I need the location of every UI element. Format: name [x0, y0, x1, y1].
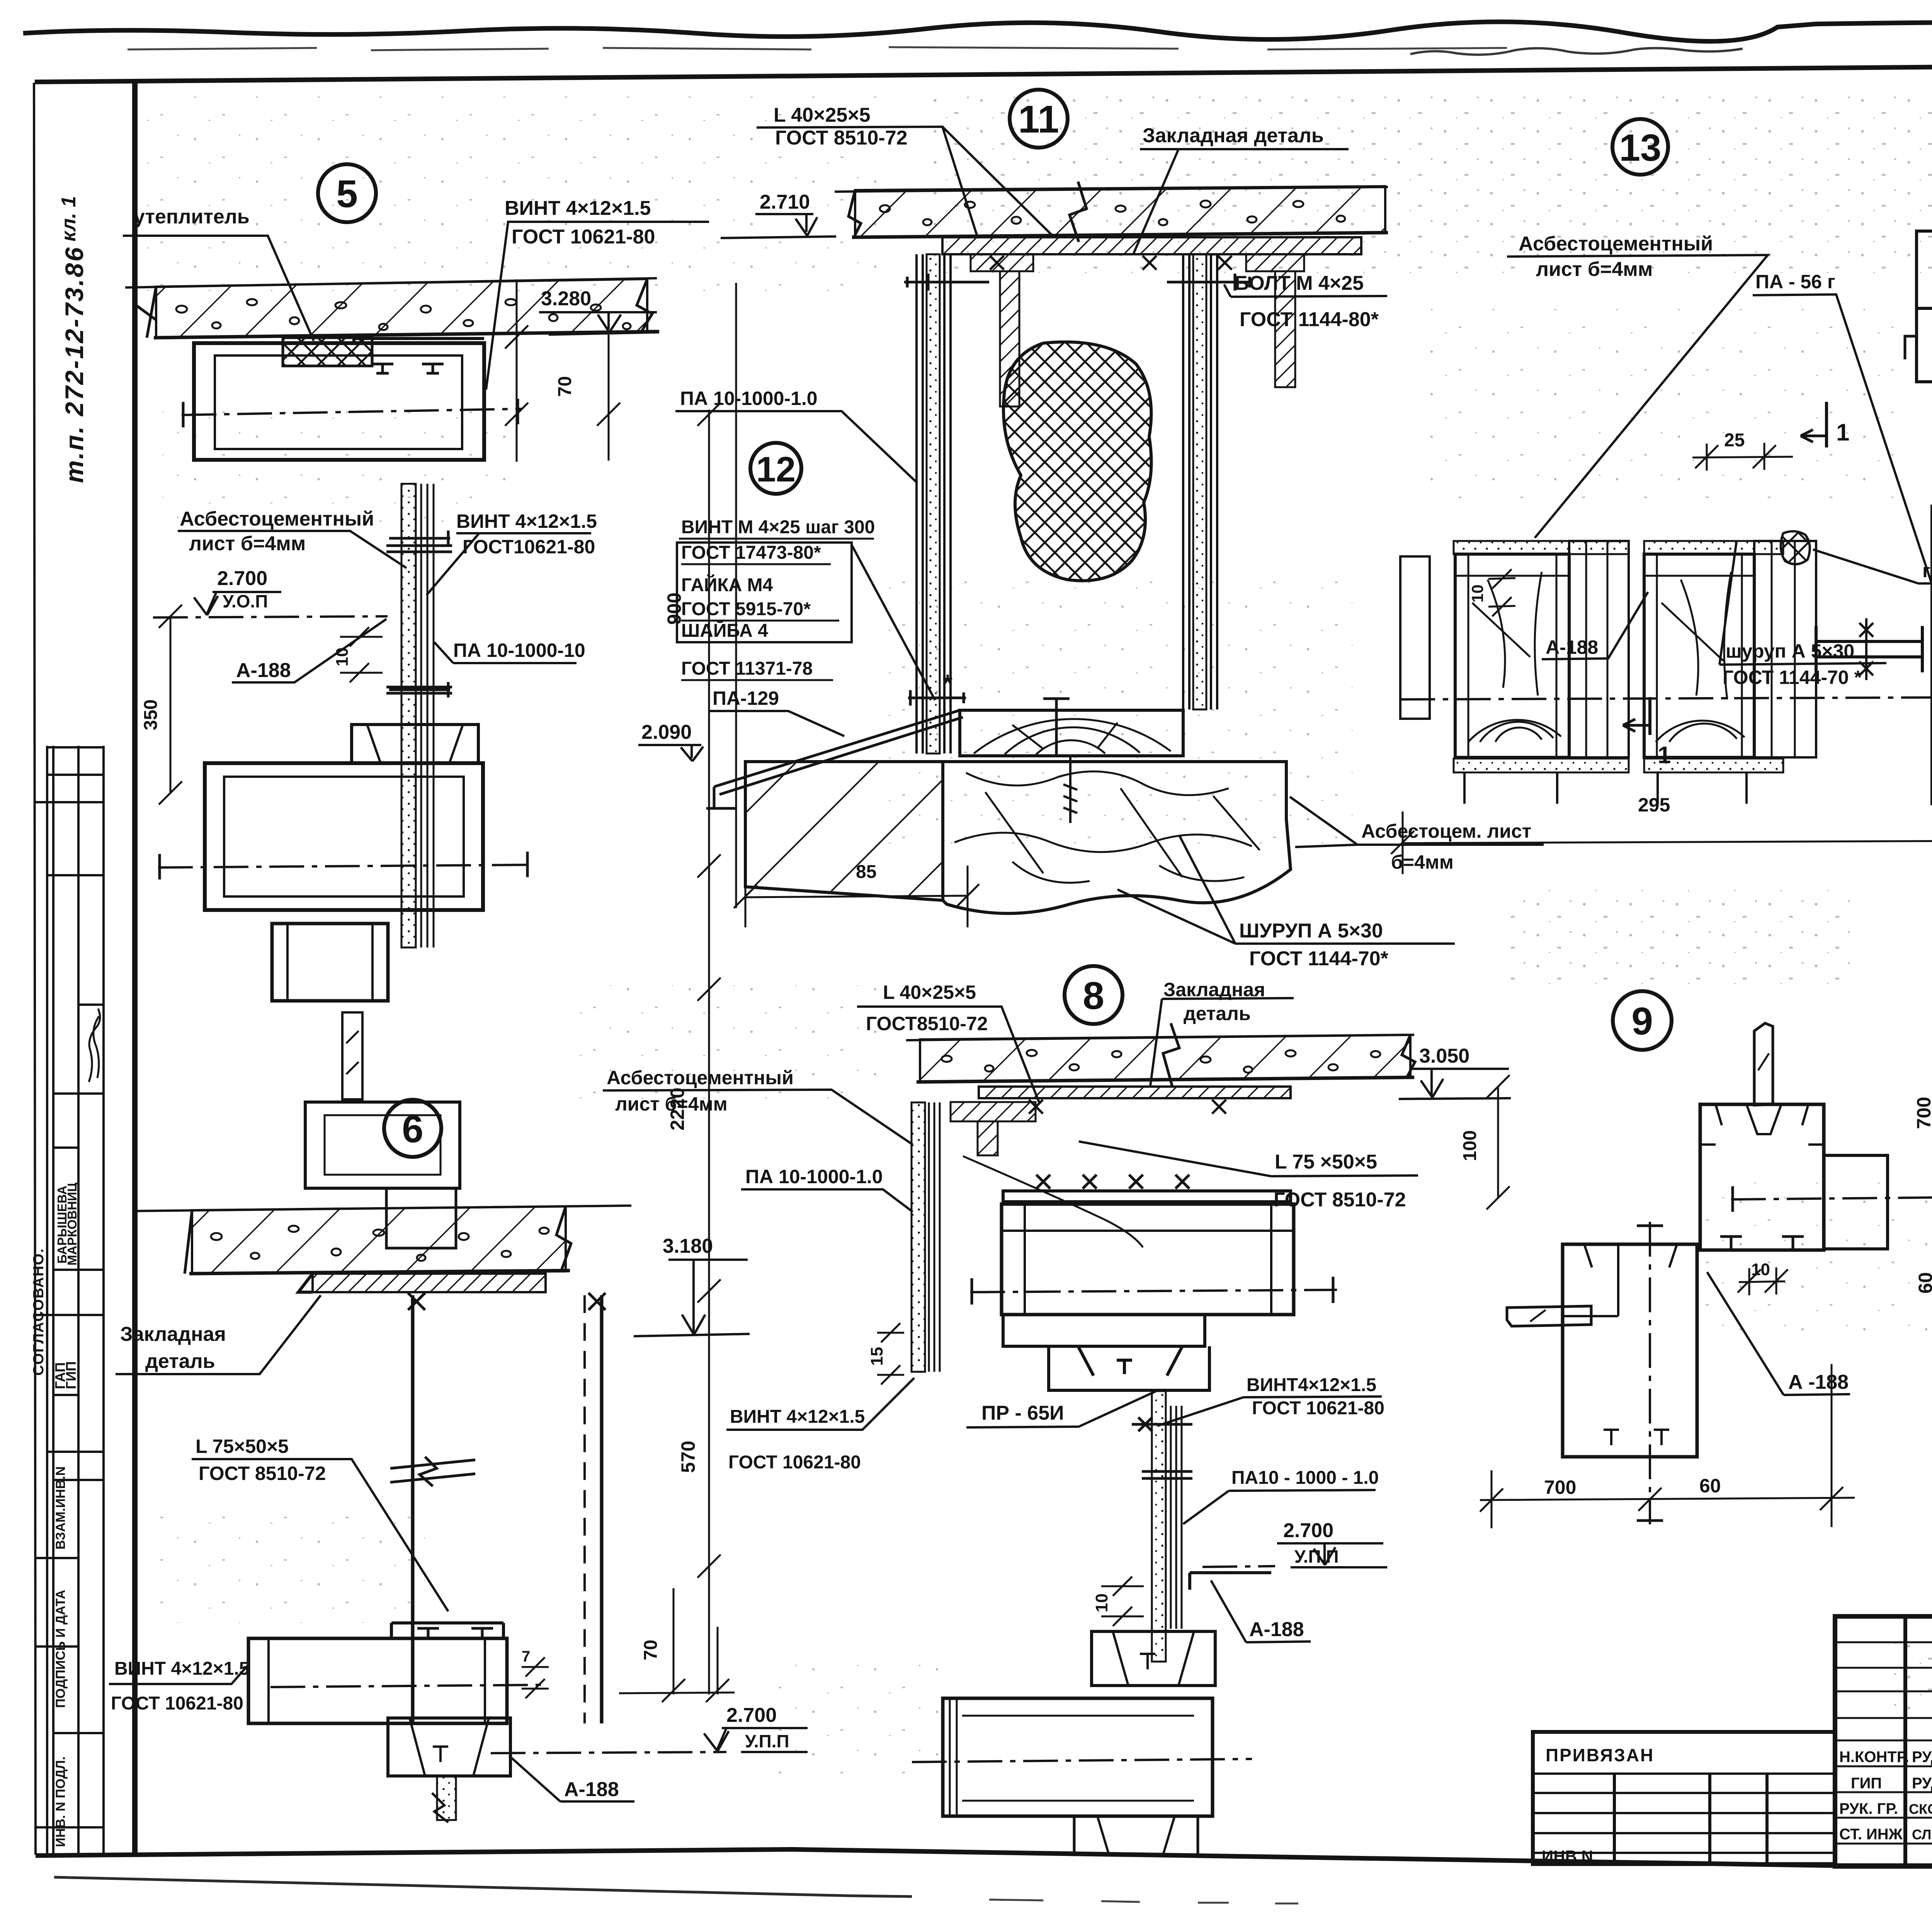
- svg-text:ГОСТ 10621-80: ГОСТ 10621-80: [728, 1452, 861, 1473]
- bottom dims 700 60: [1480, 1364, 1855, 1528]
- dim 70 bottom: [619, 1588, 735, 1702]
- svg-text:85: 85: [856, 862, 876, 882]
- angle L40 left hatched: [971, 254, 1033, 271]
- svg-text:А -188: А -188: [1788, 1371, 1849, 1393]
- bottom small piece: [1074, 1816, 1198, 1855]
- svg-text:ГОСТ 8510-72: ГОСТ 8510-72: [199, 1463, 326, 1484]
- privyazan box rows: [1533, 1774, 1835, 1853]
- svg-text:350: 350: [141, 699, 161, 730]
- asbestos sheet lower detail 8: [1152, 1391, 1166, 1662]
- right extension detail 9: [1824, 1155, 1888, 1249]
- svg-text:ИНВ. N ПОДЛ.: ИНВ. N ПОДЛ.: [53, 1757, 68, 1847]
- svg-text:570: 570: [677, 1441, 699, 1473]
- svg-text:Закладная: Закладная: [120, 1323, 226, 1345]
- dim 70: [505, 279, 528, 462]
- main frame left (sheet edge): [34, 83, 36, 1855]
- scan smudge top center: [1410, 48, 1743, 54]
- svg-text:5: 5: [336, 172, 358, 216]
- svg-text:25: 25: [1724, 430, 1745, 451]
- svg-text:6: 6: [402, 1107, 423, 1151]
- svg-text:3.280: 3.280: [541, 287, 591, 310]
- lower window profile detail 5: [352, 725, 478, 763]
- dim 100: [1486, 1075, 1510, 1209]
- rubble stones: [954, 771, 1260, 883]
- main profile block detail 8: [1002, 1204, 1294, 1315]
- svg-text:8: 8: [1083, 974, 1104, 1017]
- svg-text:т.п. 272-12-73.86: т.п. 272-12-73.86: [60, 246, 88, 483]
- svg-text:СТ. ИНЖ.: СТ. ИНЖ.: [1839, 1826, 1907, 1843]
- svg-text:ВИНТ 4×12×1.5: ВИНТ 4×12×1.5: [505, 197, 651, 219]
- svg-text:L 40×25×5: L 40×25×5: [883, 981, 976, 1003]
- svg-text:У.О.П: У.О.П: [223, 591, 268, 611]
- main frame top: [35, 61, 1932, 82]
- svg-text:Асбестоцементный: Асбестоцементный: [607, 1067, 794, 1089]
- left window side profiles: [1569, 541, 1629, 757]
- svg-text:700: 700: [1544, 1476, 1576, 1498]
- scan bottom streak: [54, 1877, 912, 1897]
- svg-text:ИНВ N: ИНВ N: [1542, 1847, 1593, 1865]
- angle L40 right hatched: [1246, 254, 1304, 271]
- svg-text:утеплитель: утеплитель: [134, 206, 250, 228]
- svg-text:ГОСТ 17473-80*: ГОСТ 17473-80*: [681, 543, 821, 563]
- svg-text:ГОСТ 10621-80: ГОСТ 10621-80: [1252, 1398, 1384, 1419]
- title block outer: [1835, 1616, 1932, 1866]
- dim 10 small detail 13: [1488, 569, 1515, 616]
- detail circle 9: [1613, 991, 1672, 1050]
- concrete slab detail 11: [835, 187, 1388, 192]
- T glyph: [422, 364, 444, 373]
- concrete slab detail 6: [134, 1206, 631, 1211]
- svg-text:У.П.П: У.П.П: [745, 1731, 789, 1751]
- section mark 1 upper: [1825, 402, 1828, 447]
- window profile detail 5: [194, 343, 484, 460]
- svg-text:ГИП: ГИП: [63, 1361, 79, 1389]
- svg-text:L 75×50×5: L 75×50×5: [196, 1436, 289, 1457]
- flashing angle: [1190, 1573, 1271, 1590]
- svg-text:15: 15: [867, 1347, 886, 1366]
- svg-text:9: 9: [1631, 1000, 1653, 1043]
- svg-text:ШУРУП А 5×30: ШУРУП А 5×30: [1239, 920, 1383, 942]
- shelf plate: [1003, 1191, 1291, 1202]
- insulation pad crosshatch: [283, 338, 372, 366]
- svg-text:60: 60: [1915, 1272, 1932, 1294]
- second window frame: [1644, 554, 1754, 757]
- left window strip: [1454, 541, 1629, 554]
- svg-text:11: 11: [1018, 98, 1059, 141]
- window sill with wood grain: [960, 710, 1183, 756]
- embedded plate detail 8: [979, 1087, 1291, 1098]
- sealant blob crosshatch: [1003, 342, 1151, 581]
- svg-text:ПА 10-1000-1.0: ПА 10-1000-1.0: [680, 388, 818, 409]
- svg-text:10: 10: [333, 648, 352, 667]
- svg-text:ПР - 65И: ПР - 65И: [981, 1402, 1064, 1424]
- dim 10 lower: [1101, 1577, 1144, 1626]
- lower trapezoid block: [1092, 1631, 1215, 1686]
- concrete slab detail 8: [906, 1035, 1414, 1040]
- svg-text:60: 60: [1699, 1475, 1721, 1497]
- bolt left: [904, 274, 989, 291]
- stamp signatures: [89, 1009, 100, 1082]
- slab 11 stones: [880, 201, 1345, 225]
- svg-text:ШАЙБА 4: ШАЙБА 4: [681, 620, 768, 641]
- svg-text:А-188: А-188: [564, 1778, 619, 1801]
- privyazan box columns: [1614, 1774, 1767, 1864]
- axis detail 9 vertical: [1649, 1222, 1651, 1524]
- lower left profile block detail 9: [1563, 1244, 1697, 1457]
- lower block detail 6: [388, 1718, 510, 1776]
- left window frame: [1455, 554, 1569, 757]
- svg-text:12: 12: [756, 450, 796, 489]
- axis line detail 5: [182, 409, 522, 415]
- svg-text:2.700: 2.700: [217, 567, 267, 590]
- svg-text:10: 10: [1468, 585, 1486, 603]
- main frame left border: [132, 81, 138, 1855]
- concrete slab detail 5: [125, 278, 657, 287]
- svg-text:ГАЙКА М4: ГАЙКА М4: [681, 574, 773, 595]
- svg-text:3.180: 3.180: [663, 1235, 713, 1257]
- svg-text:Н.КОНТР.: Н.КОНТР.: [1839, 1749, 1909, 1766]
- sheet break marks: [386, 546, 452, 693]
- svg-text:ГОСТ 8510-72: ГОСТ 8510-72: [775, 127, 908, 149]
- bottom profile detail 6: [248, 1638, 507, 1723]
- detail circle 12: [750, 443, 801, 494]
- title block left columns: [1905, 1616, 1932, 1866]
- embedded plate detail 11: [942, 237, 1361, 254]
- svg-text:деталь: деталь: [145, 1350, 215, 1373]
- sloped flashing: [706, 710, 963, 808]
- screws through sheet: [389, 531, 450, 697]
- dim 15: [877, 1323, 904, 1385]
- svg-text:*: *: [943, 669, 952, 697]
- svg-text:295: 295: [1638, 794, 1670, 816]
- svg-text:У.П.П: У.П.П: [1294, 1546, 1339, 1567]
- scan top edge wavy line: [23, 22, 1932, 41]
- svg-text:СКОТНИКОВА: СКОТНИКОВА: [1909, 1801, 1932, 1817]
- svg-text:ПА - 56 г: ПА - 56 г: [1755, 271, 1835, 293]
- long vertical dim line with 900: [697, 403, 721, 1001]
- svg-text:ВИНТ4×12×1.5: ВИНТ4×12×1.5: [1247, 1375, 1376, 1395]
- svg-text:L 40×25×5: L 40×25×5: [774, 104, 871, 126]
- asbestos sheet strips detail 5: [401, 484, 416, 947]
- svg-text:ГОСТ 1144-80*: ГОСТ 1144-80*: [1240, 308, 1379, 331]
- detail circle 6: [384, 1100, 441, 1157]
- stamp column row lines: [35, 747, 104, 1827]
- axis detail 13: [1400, 697, 1932, 699]
- svg-text:13: 13: [1619, 126, 1661, 169]
- svg-text:ГОСТ8510-72: ГОСТ8510-72: [866, 1013, 988, 1034]
- privyazan box: [1533, 1732, 1835, 1864]
- detail circle 11: [1010, 90, 1068, 148]
- leader to column bolt: [852, 545, 935, 700]
- svg-text:700: 700: [1913, 1097, 1932, 1129]
- svg-text:2.700: 2.700: [1283, 1519, 1333, 1542]
- embedded plate detail 6: [313, 1274, 546, 1292]
- bottom window piece detail 5: [305, 1102, 460, 1188]
- svg-text:СЛАВКИНА: СЛАВКИНА: [1912, 1827, 1932, 1842]
- anchor bolt into foundation: [1063, 756, 1077, 823]
- slab stones: [176, 299, 631, 330]
- asbestos sheet strips upper detail 8: [912, 1102, 925, 1372]
- svg-text:70: 70: [555, 376, 575, 396]
- svg-text:деталь: деталь: [1184, 1003, 1251, 1024]
- axis detail 9 horizontal: [1731, 1197, 1932, 1199]
- weld x row: [1036, 1175, 1189, 1189]
- svg-text:3.050: 3.050: [1419, 1045, 1469, 1067]
- svg-text:ПОДПИСЬ И ДАТА: ПОДПИСЬ И ДАТА: [53, 1590, 68, 1708]
- long dim line 570: [697, 997, 721, 1694]
- svg-text:б=4мм: б=4мм: [1391, 851, 1454, 873]
- T glyph: [372, 364, 393, 373]
- foundation right rubble part: [943, 762, 1291, 913]
- weld x marks under plate: [990, 256, 1232, 270]
- svg-text:ПА-129: ПА-129: [713, 687, 779, 709]
- slab 6 stones: [211, 1226, 549, 1261]
- trapezoid piece under block: [1049, 1346, 1209, 1390]
- mirrored strips below axis: [1454, 759, 1629, 772]
- svg-text:ГОСТ 11371-78: ГОСТ 11371-78: [681, 658, 813, 679]
- upper profile block detail 9: [1700, 1104, 1824, 1250]
- stamp column verticals: [47, 746, 104, 1853]
- column break: [390, 1457, 475, 1486]
- svg-text:Закладная: Закладная: [1163, 979, 1265, 1000]
- svg-text:10: 10: [1092, 1594, 1111, 1613]
- sheet tail detail 6: [437, 1776, 456, 1820]
- svg-text:ПРИВЯЗАН: ПРИВЯЗАН: [1546, 1745, 1654, 1765]
- svg-text:РУДНИК: РУДНИК: [1912, 1775, 1932, 1792]
- svg-text:ПА 10-1000-1.0: ПА 10-1000-1.0: [745, 1166, 883, 1187]
- bottom horizontal profile detail 8: [943, 1698, 1213, 1816]
- svg-text:ГОСТ 10621-80: ГОСТ 10621-80: [512, 226, 655, 248]
- svg-text:ГОСТ 1144-70 *: ГОСТ 1144-70 *: [1723, 667, 1862, 688]
- anchor T bolt in sill: [1043, 699, 1070, 756]
- svg-text:2.710: 2.710: [760, 191, 810, 213]
- column A detail 11: [927, 254, 940, 754]
- svg-text:А-188: А-188: [236, 659, 291, 682]
- svg-text:1: 1: [1836, 419, 1849, 446]
- svg-text:ПА 10-1000-10: ПА 10-1000-10: [453, 640, 585, 661]
- svg-text:РУДНИК: РУДНИК: [1912, 1749, 1932, 1766]
- main frame bottom: [36, 1849, 1932, 1866]
- svg-text:лист б=4мм: лист б=4мм: [1536, 258, 1653, 281]
- svg-text:ПА10 - 1000 - 1.0: ПА10 - 1000 - 1.0: [1231, 1468, 1379, 1488]
- glass strip below: [342, 1012, 362, 1099]
- screw through sheet: [1132, 1417, 1192, 1431]
- svg-text:Асбестоцементный: Асбестоцементный: [1519, 233, 1713, 255]
- dim extension line left of detail 11: [735, 283, 737, 908]
- svg-text:СОГЛАСОВАНО.: СОГЛАСОВАНО.: [31, 1248, 47, 1376]
- svg-text:МАРКОВНИЦ: МАРКОВНИЦ: [65, 1182, 79, 1266]
- svg-text:кл. 1: кл. 1: [58, 196, 80, 242]
- svg-text:ГОСТ10621-80: ГОСТ10621-80: [463, 536, 595, 558]
- svg-text:Асбестоцем. лист: Асбестоцем. лист: [1361, 820, 1531, 842]
- svg-text:А-188: А-188: [1249, 1618, 1304, 1641]
- section mark 1 lower: [1648, 697, 1651, 735]
- svg-text:Закладная деталь: Закладная деталь: [1143, 124, 1324, 147]
- far left partial profile: [1400, 556, 1430, 719]
- svg-text:100: 100: [1460, 1130, 1480, 1161]
- svg-text:ГОСТ 5915-70*: ГОСТ 5915-70*: [681, 599, 811, 619]
- svg-text:ГИП: ГИП: [1851, 1775, 1882, 1792]
- weld x marks: [408, 1293, 605, 1310]
- svg-text:70: 70: [641, 1640, 661, 1660]
- svg-text:2.090: 2.090: [641, 721, 692, 743]
- secondary profile below: [272, 924, 388, 1001]
- svg-text:лист б=4мм: лист б=4мм: [189, 532, 306, 555]
- bolt at column A bottom: [908, 690, 966, 706]
- svg-text:А-188: А-188: [1546, 636, 1598, 658]
- svg-text:лист б=4мм: лист б=4мм: [615, 1093, 728, 1115]
- central connector beam: [1816, 626, 1922, 672]
- scan top secondary streaks: [128, 47, 1507, 50]
- svg-text:шуруп А 5×30: шуруп А 5×30: [1726, 640, 1854, 662]
- svg-text:ГОСТ 1144-70*: ГОСТ 1144-70*: [1249, 947, 1389, 970]
- svg-text:ВИНТ 4×12×1.5: ВИНТ 4×12×1.5: [730, 1407, 865, 1427]
- title block left thin rows: [1835, 1642, 1932, 1844]
- upper right window column detail 13: [1905, 169, 1932, 475]
- sealant blob at joint: [1781, 531, 1810, 564]
- detail circle 13: [1612, 119, 1668, 175]
- foundation left hatched part: [745, 762, 943, 900]
- svg-text:ГОСТ 10621-80: ГОСТ 10621-80: [111, 1693, 243, 1714]
- svg-text:ВИНТ 4×12×1.5: ВИНТ 4×12×1.5: [114, 1658, 249, 1679]
- svg-text:БОЛТ М 4×25: БОЛТ М 4×25: [1235, 272, 1364, 294]
- svg-text:ВИНТ 4×12×1.5: ВИНТ 4×12×1.5: [456, 510, 597, 532]
- detail circle 5: [318, 164, 376, 222]
- svg-text:Асбестоцементный: Асбестоцементный: [180, 508, 374, 530]
- column B detail 11: [1193, 254, 1206, 709]
- second window strip: [1644, 541, 1783, 554]
- column detail 6: [413, 1295, 602, 1723]
- second window side profiles: [1754, 541, 1816, 757]
- dim 350: [159, 605, 182, 805]
- svg-text:ВИНТ М 4×25 шаг 300: ВИНТ М 4×25 шаг 300: [681, 517, 875, 538]
- svg-text:РУК. ГР.: РУК. ГР.: [1839, 1800, 1898, 1817]
- svg-text:2.700: 2.700: [726, 1704, 777, 1726]
- detail circle 8: [1065, 966, 1122, 1024]
- svg-text:ВЗАМ.ИНВ.N: ВЗАМ.ИНВ.N: [53, 1466, 68, 1550]
- svg-text:7: 7: [522, 1648, 530, 1665]
- slab 8 stones: [942, 1050, 1380, 1073]
- svg-text:L 75 ×50×5: L 75 ×50×5: [1275, 1151, 1377, 1173]
- dim 10 detail 5: [340, 627, 383, 682]
- hatched angle bracket detail 8: [951, 1102, 1036, 1121]
- glass strip above detail 9: [1754, 1023, 1773, 1105]
- bolt right: [1167, 274, 1252, 291]
- glass strip left detail 9: [1507, 1306, 1591, 1326]
- fastener group box: [677, 543, 852, 642]
